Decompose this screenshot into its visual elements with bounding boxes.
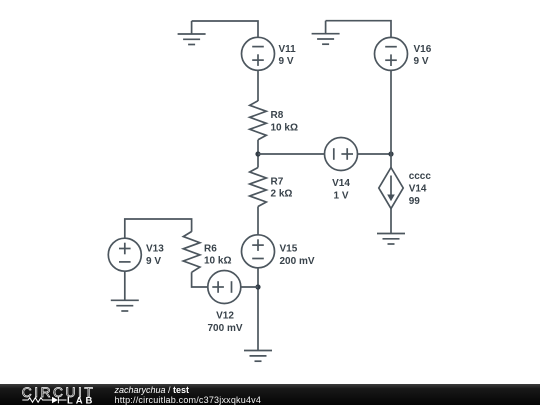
- svg-text:R7: R7: [271, 177, 284, 188]
- label V12 700 mV: [207, 311, 242, 335]
- svg-text:9 V: 9 V: [146, 256, 161, 267]
- voltage source V14: [325, 138, 358, 171]
- svg-text:V16: V16: [414, 44, 432, 55]
- svg-text:V14: V14: [409, 184, 427, 195]
- voltage source V11: [242, 37, 275, 70]
- wire top-right from ground to V16 top: [326, 21, 391, 38]
- svg-text:V12: V12: [216, 311, 234, 322]
- svg-text:2 kΩ: 2 kΩ: [271, 189, 293, 200]
- svg-text:9 V: 9 V: [414, 56, 429, 67]
- wire node A to V14: [258, 153, 325, 155]
- svg-text:LAB: LAB: [67, 396, 95, 405]
- voltage source V12: [208, 271, 241, 304]
- ground (below V13): [111, 300, 139, 311]
- svg-text:99: 99: [409, 196, 421, 207]
- svg-text:10 kΩ: 10 kΩ: [204, 256, 231, 267]
- node A junction dot: [255, 151, 260, 156]
- label R6 10 kΩ: [204, 243, 231, 266]
- svg-text:R6: R6: [204, 243, 217, 254]
- node C junction dot: [255, 284, 260, 289]
- svg-text:1 V: 1 V: [333, 191, 348, 202]
- wire V12 to node C: [241, 286, 258, 288]
- label cccc V14 99: [409, 171, 432, 207]
- wire CCCS to ground: [390, 209, 392, 234]
- wire V15 to node C and down to ground: [257, 268, 259, 351]
- wire V14 to node B: [358, 153, 392, 155]
- wire V16 to node B: [390, 70, 392, 154]
- label V11 9 V: [279, 44, 297, 67]
- CircuitLab logo: [0, 384, 100, 405]
- voltage source V15: [242, 235, 275, 268]
- voltage source V13: [108, 238, 141, 271]
- svg-text:R8: R8: [271, 110, 284, 121]
- footer text: title and url: [115, 385, 262, 405]
- svg-text:200 mV: 200 mV: [280, 256, 315, 267]
- label R7 2 kΩ: [271, 177, 293, 200]
- svg-text:10 kΩ: 10 kΩ: [271, 123, 298, 134]
- svg-text:V15: V15: [280, 243, 298, 254]
- label V14 1 V: [332, 178, 350, 201]
- wire R7 to V15: [257, 207, 259, 235]
- svg-text:V14: V14: [332, 178, 350, 189]
- voltage source V16: [375, 37, 408, 70]
- wire V13 to ground: [124, 271, 126, 300]
- dependent current source (CCCS) diamond: [379, 168, 403, 209]
- resistor R6: [183, 232, 200, 273]
- wire top-left from ground to V11 top: [192, 21, 258, 37]
- wire node B to dependent source: [390, 154, 392, 168]
- label V16 9 V: [414, 44, 432, 67]
- footer bar: [0, 384, 540, 405]
- svg-text:V11: V11: [279, 44, 297, 55]
- resistor R8: [250, 101, 267, 140]
- svg-text:9 V: 9 V: [279, 56, 294, 67]
- ground (top-left): [178, 21, 206, 45]
- svg-text:cccc: cccc: [409, 171, 432, 182]
- wire R6 top to V13 top: [125, 219, 192, 238]
- wire V12 left to R6 bottom: [192, 272, 208, 287]
- ground (below CCCS): [377, 234, 405, 245]
- wire R8 to node A and on to R7: [257, 140, 259, 168]
- resistor R7: [250, 168, 267, 207]
- label R8 10 kΩ: [271, 110, 298, 134]
- node B junction dot: [388, 151, 393, 156]
- svg-text:700 mV: 700 mV: [207, 323, 242, 334]
- svg-text:V13: V13: [146, 243, 164, 254]
- label V15 200 mV: [280, 243, 315, 267]
- ground (bottom middle): [244, 351, 272, 362]
- wire V11 to R8: [257, 70, 259, 101]
- ground (top-right): [312, 21, 340, 45]
- label V13 9 V: [146, 243, 164, 267]
